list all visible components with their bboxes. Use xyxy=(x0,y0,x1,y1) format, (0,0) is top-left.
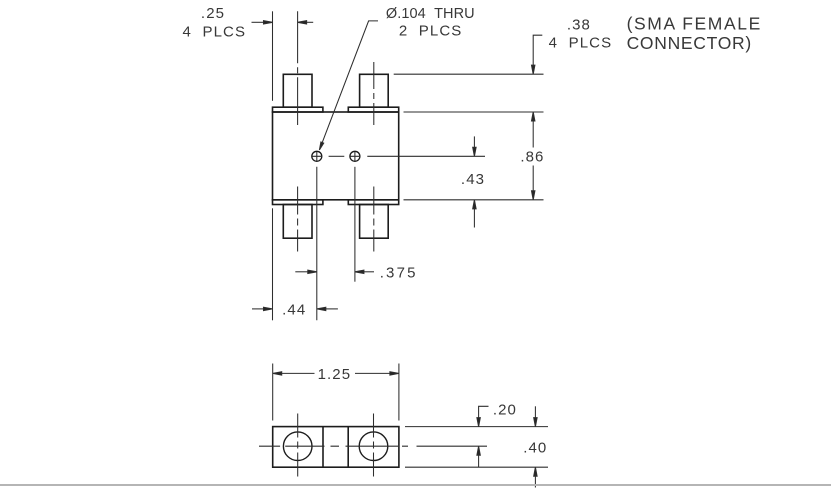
svg-text:1.25: 1.25 xyxy=(318,366,352,383)
dim .38 leader arrow xyxy=(533,35,542,66)
extension line 1.25 left xyxy=(272,364,274,421)
bottom view circle right xyxy=(359,432,388,461)
dim .20 up arrow xyxy=(477,446,480,455)
bottom view circle left xyxy=(283,432,312,461)
svg-text:.20: .20 xyxy=(493,401,517,418)
dim 1.25 right arrow xyxy=(355,372,391,374)
centerline bottom-left stub xyxy=(297,187,299,252)
dim .44 left arrow xyxy=(252,308,264,310)
bottom-left connector flange xyxy=(273,200,323,205)
bottom-right connector stub xyxy=(360,205,389,239)
dim .375 left arrow xyxy=(295,271,308,273)
centerline bottom-right stub xyxy=(373,187,375,252)
extension line rect top right xyxy=(405,426,548,428)
extension line body left edge (top) xyxy=(272,11,274,101)
top-right connector flange xyxy=(348,107,398,112)
svg-text:.375: .375 xyxy=(380,265,418,282)
top-left connector stub xyxy=(283,74,312,107)
extension line stub top right xyxy=(394,73,544,75)
svg-text:4 PLCS: 4 PLCS xyxy=(549,35,613,52)
extension line body top right xyxy=(404,111,544,113)
dim .43 bottom arrow xyxy=(473,207,475,228)
bottom view outline xyxy=(273,427,399,468)
dim .375 right arrow xyxy=(363,271,374,273)
svg-text:.43: .43 xyxy=(461,171,485,188)
bottom view inner line left xyxy=(322,427,324,468)
dim .25 left arrow xyxy=(252,21,265,23)
centerline top-right stub xyxy=(373,62,375,125)
dim .86 bottom arrow xyxy=(532,166,534,193)
body outline (top view) xyxy=(273,112,399,200)
bottom-left connector stub xyxy=(283,205,312,239)
svg-text:.86: .86 xyxy=(520,149,544,166)
extension line hole 2 down xyxy=(354,167,356,282)
hole centerline extension right xyxy=(367,155,485,157)
centerline top-left stub xyxy=(297,11,299,125)
hole 1 cross xyxy=(312,152,321,161)
hole 1 circle xyxy=(312,151,322,161)
svg-text:.38: .38 xyxy=(567,16,591,33)
bottom view horizontal centerline xyxy=(259,445,487,447)
dim .25 right arrow xyxy=(302,21,313,23)
svg-text:.44: .44 xyxy=(282,302,306,319)
hole 2 circle xyxy=(350,151,360,161)
hole 2 cross xyxy=(351,152,360,161)
dim .86 top arrow xyxy=(532,119,534,148)
dim .40 up arrow xyxy=(534,467,537,476)
centerline between holes xyxy=(329,155,345,157)
svg-text:Ø.104 THRU: Ø.104 THRU xyxy=(386,6,475,22)
bottom view vertical centerline left xyxy=(297,414,299,480)
top-right connector stub xyxy=(360,74,389,107)
extension line 1.25 right xyxy=(398,364,400,421)
svg-text:.40: .40 xyxy=(523,439,547,456)
svg-text:2 PLCS: 2 PLCS xyxy=(399,23,463,40)
svg-text:.25: .25 xyxy=(201,5,225,22)
dim .40 down arrow xyxy=(534,406,536,418)
dim 1.25 left arrow xyxy=(273,372,282,375)
extension line hole 1 down xyxy=(316,167,318,320)
dim .43 top arrow xyxy=(473,136,475,148)
extension line body bottom right xyxy=(404,199,544,201)
dim .20 leader arrow xyxy=(479,406,489,418)
svg-text:(SMA FEMALE: (SMA FEMALE xyxy=(627,14,762,34)
extension line rect bottom right xyxy=(405,466,548,468)
bottom view inner line right xyxy=(347,427,349,468)
svg-text:CONNECTOR): CONNECTOR) xyxy=(627,33,752,53)
bottom-right connector flange xyxy=(348,200,398,205)
top-left connector flange xyxy=(273,107,323,112)
svg-text:4 PLCS: 4 PLCS xyxy=(183,23,247,40)
page edge line xyxy=(0,484,831,486)
extension line body left edge (bottom) xyxy=(272,208,274,320)
leader to hole 1 xyxy=(320,21,378,149)
dim .44 right arrow xyxy=(325,308,338,310)
bottom view vertical centerline right xyxy=(373,414,375,480)
